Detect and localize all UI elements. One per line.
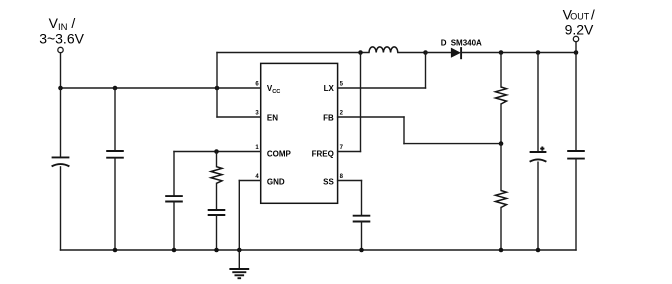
wire R3 top lead [216,152,218,167]
capacitor C2 (input ceramic) [106,151,124,158]
svg-text:3: 3 [255,111,259,117]
wire C2 bottom lead [114,158,116,250]
svg-text:8: 8 [340,174,344,180]
capacitor C3 (soft-start) [353,216,371,222]
svg-text:VOUT/: VOUT/ [563,6,595,22]
node junction C2 column [113,86,118,91]
wire C6 bottom lead [537,162,539,250]
wire R2 bottom lead [500,208,502,251]
wire diode cathode to VOUT rail [461,52,576,54]
wire bottom rail [61,249,577,251]
wire FB node to R2 [500,144,502,191]
node junction bottom C3 [359,248,364,253]
svg-text:6: 6 [255,82,259,88]
svg-text:2: 2 [340,111,344,117]
svg-text:5: 5 [340,82,344,88]
node VOUT terminal circle [573,36,578,41]
wire COMP pin 1 horizontal [174,151,261,153]
resistor R3 (comp) [211,167,222,184]
wire EN branch to pin 3 [217,116,261,118]
svg-text:EN: EN [267,114,278,123]
resistor R1 (feedback upper) [496,87,507,104]
wire GND vertical to bottom rail [238,181,240,251]
inductor L1 [369,47,398,53]
wire C1 bottom lead [60,167,62,250]
wire C4 top lead [173,152,175,197]
svg-text:7: 7 [340,145,344,151]
wire FB to divider midpoint [404,143,501,145]
node junction bottom R2 [499,248,504,253]
node junction LX tap [423,50,428,55]
wire R3 to C5 [216,183,218,210]
wire C1 top lead [60,88,62,157]
capacitor C6 (output electrolytic) [530,152,547,162]
svg-text:COMP: COMP [267,150,292,159]
svg-text:FB: FB [323,114,334,123]
node junction bottom C4 [172,248,177,253]
wire R1 top lead [500,53,502,88]
op-amp U1 (converter IC body) [261,63,338,203]
svg-text:1: 1 [255,145,259,151]
wire GND pin 4 stub [239,180,260,182]
wire LX node to diode anode [426,52,451,54]
svg-text:FREQ: FREQ [312,150,334,159]
wire VIN terminal to input bus [60,53,62,88]
svg-text:4: 4 [255,174,259,180]
node junction feedback divider top [499,50,504,55]
wire FB pin 2 horizontal [338,116,404,118]
wire C4 bottom lead [173,202,175,251]
node junction output electrolytic top [536,50,541,55]
wire FREQ pin 7 stub [338,151,361,153]
node VIN terminal label [39,15,84,47]
diode D (SM340A) [451,47,461,59]
wire SS pin 8 stub [338,180,362,182]
wire C2 top lead [114,88,116,151]
wire FREQ vertical to top rail [360,53,362,152]
node VIN terminal circle [58,47,63,52]
wire VOUT terminal stub [575,42,577,53]
node junction FB divider midpoint [499,141,504,146]
node junction VIN column [58,86,63,91]
wire top rail to inductor [217,52,369,54]
ground [229,250,249,278]
wire C5 bottom lead [216,215,218,250]
svg-text:3~3.6V: 3~3.6V [39,31,84,47]
capacitor C6 polarity plus [540,147,544,151]
node junction bottom C2 [113,248,118,253]
wire LX vertical to top rail [425,53,427,89]
capacitor C1 (input electrolytic) [52,157,70,166]
svg-text:LX: LX [324,84,335,93]
node junction COMP RC tap [214,149,219,154]
wire input bus horizontal [61,87,261,89]
capacitor C4 (comp) [165,196,183,201]
wire EN branch down [216,88,218,117]
node junction bottom C5 [214,248,219,253]
node VOUT terminal label [563,6,595,37]
wire C7 top lead [575,53,577,152]
node junction bottom GND [237,248,242,253]
capacitor C7 (output ceramic) [567,151,585,159]
svg-text:DSM340A: DSM340A [441,39,482,48]
node junction VCC/EN/top branch [215,86,220,91]
svg-text:9.2V: 9.2V [565,21,594,37]
wire C6 top lead [537,53,539,153]
wire SS vertical to C3 [361,181,363,216]
node junction top rail FREQ tap [358,50,363,55]
wire FB vertical jog [403,117,405,144]
wire branch up to top rail [216,53,218,89]
node junction bottom C6 [536,248,541,253]
wire inductor to LX node [398,52,426,54]
svg-text:SS: SS [323,178,334,187]
wire R1 to FB node [500,104,502,144]
node junction VOUT terminal tap [574,50,579,55]
wire LX pin 5 horizontal [338,87,426,89]
svg-text:GND: GND [267,178,285,187]
resistor R2 (feedback lower) [496,191,507,208]
wire C3 bottom lead [361,222,363,251]
capacitor C5 (comp) [208,210,226,215]
wire C7 bottom lead [575,159,577,250]
